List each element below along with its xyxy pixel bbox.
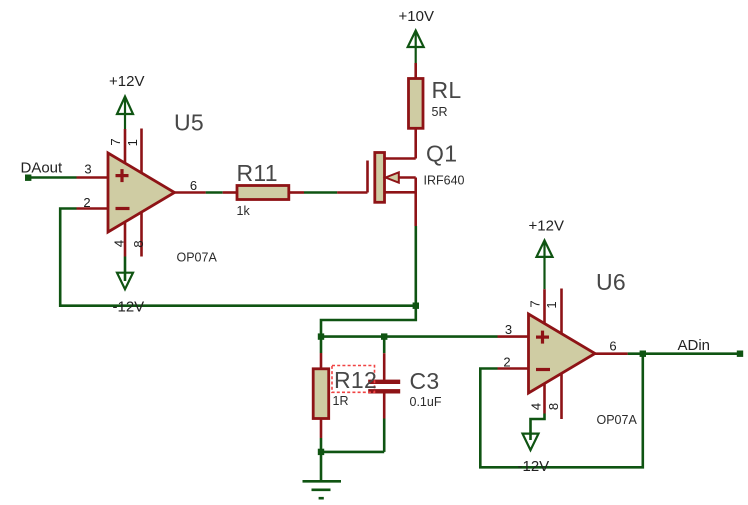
svg-text:4: 4 [528, 403, 543, 410]
svg-text:1R: 1R [333, 394, 349, 408]
svg-text:R11: R11 [237, 160, 278, 186]
svg-text:Q1: Q1 [426, 141, 457, 167]
svg-text:3: 3 [505, 322, 512, 337]
svg-text:RL: RL [432, 77, 462, 103]
svg-text:OP07A: OP07A [597, 413, 638, 427]
svg-text:1: 1 [544, 301, 559, 308]
svg-text:3: 3 [84, 162, 91, 177]
svg-text:-12V: -12V [113, 299, 145, 316]
svg-text:-12V: -12V [518, 458, 550, 475]
svg-text:8: 8 [546, 403, 561, 410]
svg-text:2: 2 [83, 195, 90, 210]
svg-text:4: 4 [111, 240, 126, 247]
svg-text:5R: 5R [432, 105, 448, 119]
svg-text:+10V: +10V [399, 8, 434, 25]
svg-text:7: 7 [108, 138, 123, 145]
svg-text:7: 7 [527, 300, 542, 307]
svg-text:+12V: +12V [109, 73, 144, 90]
svg-text:R12: R12 [334, 367, 377, 393]
svg-text:6: 6 [190, 178, 197, 193]
svg-text:C3: C3 [410, 368, 440, 394]
svg-text:8: 8 [131, 240, 146, 247]
svg-text:U5: U5 [174, 110, 204, 136]
svg-text:DAout: DAout [21, 160, 64, 177]
svg-text:IRF640: IRF640 [424, 174, 465, 188]
svg-text:+12V: +12V [529, 218, 564, 235]
svg-text:1: 1 [125, 139, 140, 146]
svg-text:2: 2 [503, 355, 510, 370]
svg-text:1k: 1k [237, 204, 251, 218]
svg-text:6: 6 [609, 339, 616, 354]
svg-text:U6: U6 [596, 269, 626, 295]
svg-text:OP07A: OP07A [177, 251, 218, 265]
svg-text:0.1uF: 0.1uF [410, 395, 442, 409]
svg-text:ADin: ADin [678, 337, 711, 354]
